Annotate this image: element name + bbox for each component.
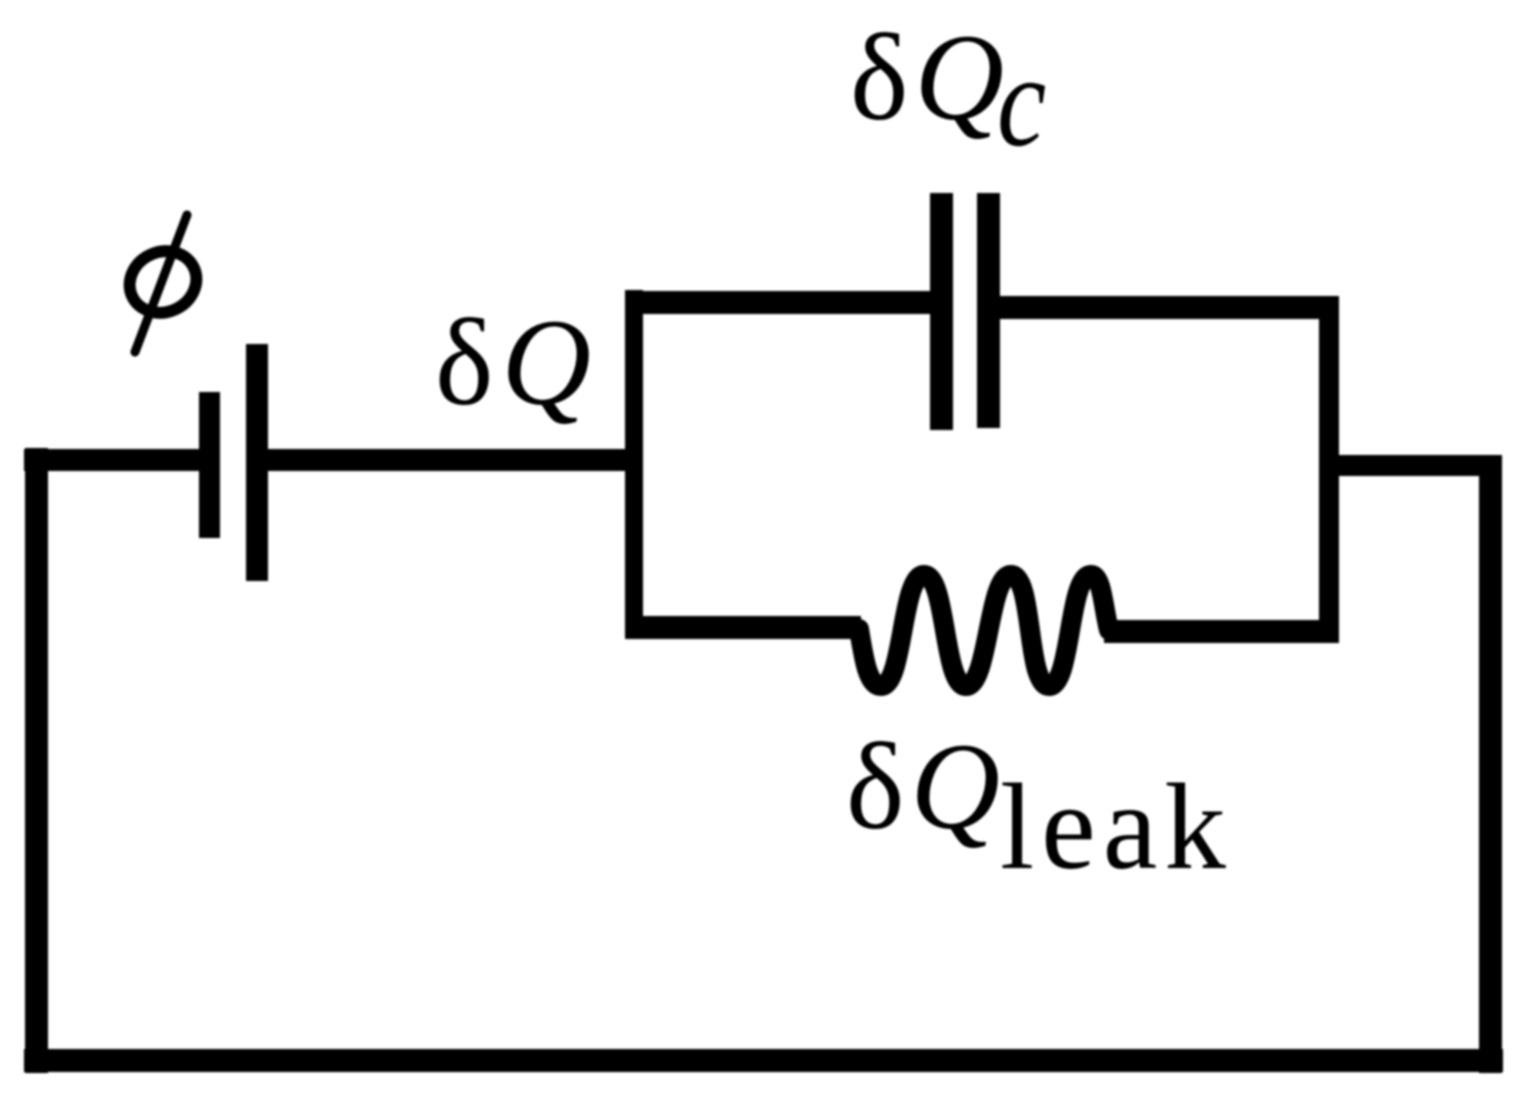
wire top-left horizontal (left rail to battery) — [24, 449, 200, 471]
svg-text:δQ: δQ — [846, 718, 1000, 855]
label φ (battery flux) : ellipse — [120, 240, 207, 323]
battery B1 negative plate (short) — [199, 392, 220, 538]
resistor R (leak) zigzag — [859, 575, 1109, 686]
wire outer bottom horizontal — [24, 1049, 1503, 1072]
battery B1 positive plate (long) — [246, 344, 268, 581]
wire battery to parallel box (node δQ) — [268, 449, 643, 471]
wire outer right vertical — [1479, 455, 1502, 1073]
wire outer left vertical — [25, 448, 48, 1073]
capacitor C right plate — [977, 193, 1000, 428]
svg-text:c: c — [997, 28, 1046, 174]
wire bottom branch right segment — [1104, 620, 1339, 643]
wire middle right horizontal (parallel box to right rail) — [1329, 455, 1502, 476]
svg-text:leak: leak — [1000, 758, 1233, 895]
svg-text:δQ: δQ — [850, 9, 1004, 146]
capacitor C left plate — [930, 193, 953, 430]
label φ slash stroke — [135, 215, 187, 352]
svg-text:δQ: δQ — [435, 294, 591, 431]
wire top branch right segment — [999, 296, 1339, 319]
wire parallel box right vertical — [1319, 299, 1339, 639]
wire bottom branch left segment — [625, 616, 861, 639]
wire parallel box left vertical — [625, 290, 643, 639]
wire top branch left segment — [625, 291, 931, 314]
